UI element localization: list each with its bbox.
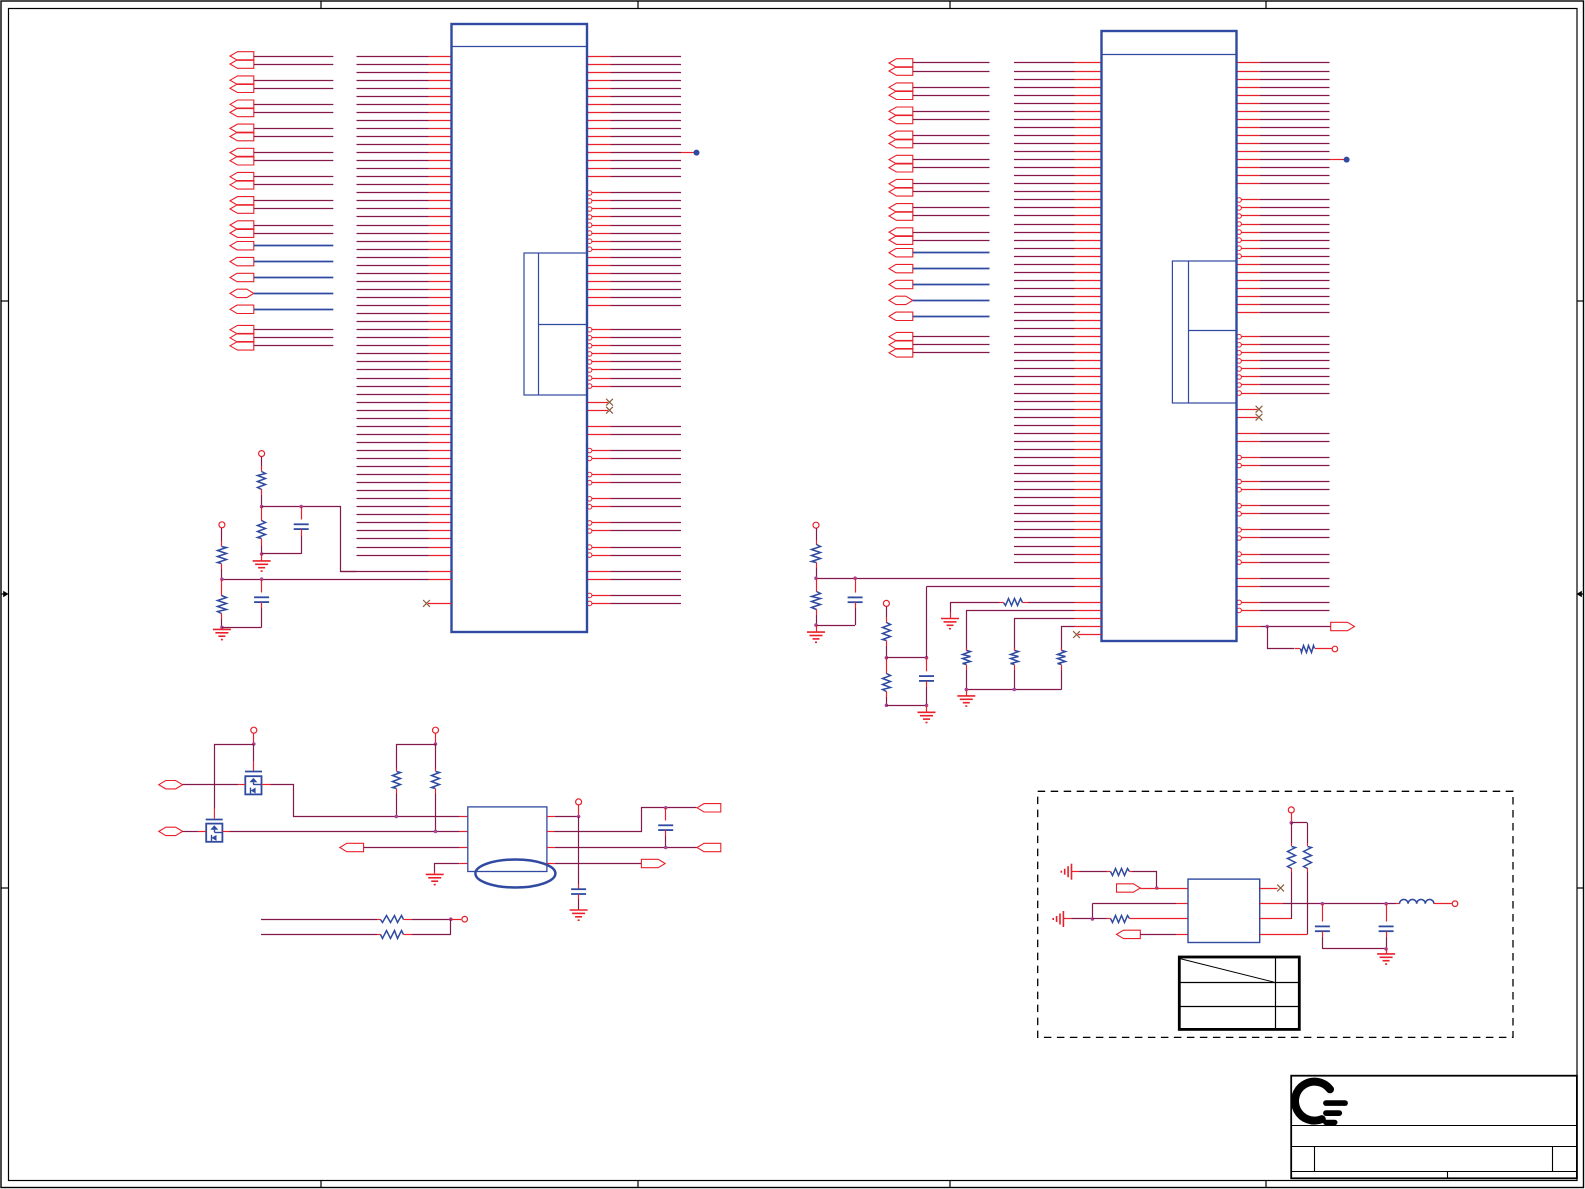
U2 left pin row 65 wire: [927, 586, 1102, 588]
wire flag to U3 pin 4: [1140, 934, 1188, 936]
node C junction: [220, 577, 224, 581]
ground below node D: [213, 629, 231, 639]
U2 right pin rows 0-15: [1237, 62, 1330, 64]
node D junction: [220, 626, 224, 630]
wire G1 to resistor R19: [1072, 871, 1111, 873]
transformer right pin 2 wire to flag RDP: [547, 808, 697, 832]
node R junction: [664, 846, 668, 850]
U1 IC inner sub-block: [524, 253, 587, 395]
node L junction: [252, 742, 256, 746]
pulldown resistor R11: [963, 648, 971, 689]
node U junction: [1091, 917, 1095, 921]
sideways ground G2: [1053, 911, 1063, 927]
transistor Q1: [245, 772, 262, 795]
power terminal V2: [219, 522, 225, 528]
node H junction: [814, 623, 818, 627]
ground below C5: [570, 910, 588, 920]
U2 left no-connect pin row 71: [1073, 631, 1101, 638]
wire Q1 drain to transformer pin 1: [262, 785, 468, 817]
ground below transformer pin 4: [426, 874, 444, 884]
flag DONE right: [1331, 622, 1355, 630]
power terminal V5: [251, 727, 257, 733]
note table row lines: [1179, 983, 1299, 1007]
node C2 junction: [260, 577, 264, 581]
U3 right pin 3 wire to R21: [1260, 918, 1292, 920]
U3 right pin 4 wire to R22: [1260, 934, 1308, 936]
resistor R5: [812, 545, 821, 563]
wire node T to U3 pin 1: [1157, 888, 1188, 890]
node M junction: [434, 742, 438, 746]
wire W2 up to node S: [450, 919, 452, 934]
border zone tick marks bottom: [321, 1181, 1266, 1189]
U2 right pin rows 17-24 (inverted): [1237, 198, 1330, 203]
U2 single flag blue net 4: [889, 296, 990, 304]
transformer right pin 4 wire to flag: [547, 863, 642, 865]
node J2 junction: [925, 704, 929, 708]
U2 IC inner sub-block: [1172, 261, 1236, 403]
resistor R3: [218, 547, 227, 564]
power terminal V3: [813, 522, 819, 528]
title block vertical dividers: [1315, 1147, 1553, 1179]
node B junction: [260, 552, 264, 556]
U3 pin 2 wire: [1092, 904, 1188, 919]
U2 right pin rows 34-41 (inverted): [1237, 334, 1330, 339]
ground below node B: [253, 554, 271, 571]
U2 right no-connect pins rows 43-44: [1237, 406, 1263, 413]
wire V2 to R3: [221, 528, 223, 547]
resistor R15: [393, 769, 401, 817]
flag RDN: [697, 843, 721, 851]
node W junction: [1384, 902, 1388, 906]
note table column line: [1275, 957, 1277, 1029]
power terminal V8: [1288, 807, 1294, 813]
U1 IC header line: [452, 46, 588, 48]
node I2 junction: [925, 656, 929, 660]
U1 flag pair rows 3-4: [230, 76, 333, 93]
wire R20 to U3 pin 3: [1130, 918, 1189, 920]
node F junction: [1013, 688, 1017, 692]
transformer T1 core ellipse: [475, 860, 555, 888]
U2 flag row 34: [889, 332, 990, 341]
U1 left no-connect pin row 68: [423, 600, 451, 607]
U1 flag pair rows 6-7: [230, 100, 333, 117]
power terminal V7: [576, 799, 582, 805]
resistor R1: [258, 472, 266, 490]
U1 right pin rows 0-15: [587, 56, 681, 58]
wire R1 to node A: [261, 489, 263, 507]
wire node I2 up to U2 pin row 65: [926, 587, 928, 658]
node T junction: [1155, 886, 1159, 890]
transformer right pin 3 wire to flag RDN: [547, 847, 697, 849]
U1 flag pair rows 9-10: [230, 124, 333, 141]
resistor R17: [377, 916, 451, 923]
U2 single flag blue net 3: [889, 280, 990, 288]
U1 IC body box: [452, 24, 588, 632]
U2 single flag blue net 2: [889, 264, 990, 272]
border center arrow right: [1577, 591, 1585, 597]
resistor R2: [258, 507, 266, 554]
node I junction: [885, 656, 889, 660]
node O junction: [434, 830, 438, 834]
wire node P down to C5: [578, 817, 580, 890]
U2 left pin row 69 wire to pulldown: [1015, 619, 1102, 651]
U3 right pin 2 output wire: [1260, 903, 1400, 905]
wire V5 to node L: [253, 733, 255, 744]
U1 flag pair rows 18-19: [230, 197, 333, 214]
capacitor C1: [294, 507, 309, 554]
wire C5 to ground: [578, 894, 580, 910]
wire R7 to node I: [886, 641, 888, 658]
wire node L down to Q1 gate: [253, 744, 255, 771]
U1 single flag blue net 2: [230, 257, 333, 265]
U1 flag pair rows 15-16: [230, 172, 333, 189]
wire V8 to node X: [1291, 813, 1293, 823]
ground for U2 row 67 net: [941, 602, 959, 628]
wire flag to U3 pin 1: [1140, 888, 1156, 890]
wire flag to Q2: [183, 831, 207, 833]
flag TD output: [641, 859, 665, 867]
U1 single flag blue net 3: [230, 273, 333, 281]
title block outer box: [1291, 1076, 1577, 1179]
flag RDP: [697, 804, 721, 812]
power terminal V1: [259, 451, 265, 457]
U2 right pin row 70 wire to flag: [1237, 626, 1331, 628]
node E junction: [965, 688, 969, 692]
U1 flag row 36: [230, 342, 333, 351]
U1 flag pair rows 21-22: [230, 221, 333, 238]
output terminal circle: [1452, 901, 1458, 907]
flag U3 input 1: [1117, 884, 1141, 892]
border center arrow left: [1, 591, 9, 597]
U2 flag pair rows 15-16: [889, 179, 990, 196]
U2 flag pair rows 9-10: [889, 131, 990, 148]
inductor L1: [1400, 899, 1434, 903]
wire node I to C4 top: [886, 657, 926, 659]
wire flag RX to transformer pin 3: [364, 847, 468, 849]
node K junction: [1265, 625, 1269, 629]
node Q junction: [664, 806, 668, 810]
U2 IC body box: [1102, 31, 1237, 641]
node A2 junction: [299, 505, 303, 509]
U1 left pin row 65 wire from RC network: [222, 579, 452, 581]
wire node U to resistor R20: [1092, 918, 1110, 920]
ground below C8: [1377, 949, 1395, 964]
U2 left pin row 67 wire with series resistor R10: [950, 599, 1102, 606]
resistor R20: [1111, 916, 1130, 923]
node Y junction: [1384, 947, 1388, 951]
resistor R19: [1111, 869, 1130, 876]
node G junction: [814, 576, 818, 580]
pulldown resistor R13: [1058, 648, 1066, 689]
wire V1 to R1: [261, 457, 263, 472]
note table diagonal: [1180, 959, 1274, 983]
wire C7 to C8 bottom: [1322, 948, 1386, 950]
U2 flag pair rows 3-4: [889, 83, 990, 100]
capacitor C5: [571, 889, 586, 894]
pulldown resistor R12: [1011, 648, 1019, 689]
wire node L to Q2 gate branch: [215, 745, 254, 809]
wire W2 lower: [261, 934, 377, 936]
flag TXP input: [159, 781, 183, 789]
resistor R7: [883, 623, 891, 641]
node P junction: [577, 815, 581, 819]
wire G2 to node U: [1063, 918, 1092, 920]
capacitor C6: [658, 808, 673, 848]
U2 flag pair rows 0-1: [889, 59, 990, 76]
wire node D to C2 bottom: [222, 627, 262, 629]
U3 regulator box: [1188, 879, 1260, 942]
U2 flag row 35: [889, 340, 990, 349]
U2 IC header line: [1102, 54, 1237, 56]
border zone tick marks right: [1577, 301, 1585, 888]
wire R3 to node C: [221, 564, 223, 579]
pulldown common wire: [966, 689, 1061, 691]
border zone tick marks top: [321, 1, 1266, 9]
capacitor C3: [848, 578, 863, 625]
node A junction: [260, 505, 264, 509]
dashed option box: [1038, 791, 1513, 1037]
wire transformer pin 4 to ground: [435, 864, 468, 875]
U2 right pin pairs rows 46-68: [1237, 433, 1330, 435]
resistor R6: [812, 578, 821, 625]
capacitor C2: [254, 579, 269, 627]
node N junction: [395, 815, 399, 819]
wire node M to R15 top: [397, 745, 436, 769]
U2 flag pair rows 12-13: [889, 155, 990, 172]
node S junction: [449, 917, 453, 921]
wire V6 to node M: [435, 733, 437, 744]
power terminal V4: [883, 600, 889, 606]
U1 right pin rows 34-41 (inverted): [587, 327, 681, 332]
U2 right pin rows 25-31: [1237, 264, 1330, 266]
wire V7 to node P: [578, 805, 580, 817]
U2 flag pair rows 6-7: [889, 107, 990, 124]
node G2 junction: [853, 576, 857, 580]
U2 flag pair rows 21-22: [889, 228, 990, 245]
U1 flag pair rows 0-1: [230, 52, 333, 69]
U1 right no-connect pins rows 43-44: [587, 399, 613, 406]
wire V3 to R5: [816, 528, 818, 545]
U1 flag row 35: [230, 333, 333, 342]
node V junction: [1321, 902, 1325, 906]
U2 flag pair rows 18-19: [889, 204, 990, 221]
wire node H to C3 bottom: [816, 625, 855, 627]
flag TXN input: [159, 827, 183, 835]
wire node B to C1 bottom: [262, 553, 302, 555]
U2 flag row 36: [889, 349, 990, 358]
resistor R8: [883, 658, 891, 706]
U1 single flag blue net 5: [230, 305, 333, 313]
wire R19 to node T: [1130, 872, 1157, 889]
U1 right pin rows 25-31: [587, 257, 681, 259]
ground below pulldowns: [957, 689, 975, 706]
U1 right pin rows 17-24 (inverted): [587, 191, 681, 196]
U1 flag row 34: [230, 325, 333, 334]
resistor R22: [1291, 823, 1311, 935]
wire L1 to output terminal: [1434, 903, 1452, 905]
title block horizontal dividers: [1291, 1126, 1577, 1172]
U1 single flag blue net 1: [230, 242, 333, 250]
power terminal V6: [433, 727, 439, 733]
U1 left pin bus wires: [357, 57, 452, 556]
transformer T1 body: [468, 807, 547, 872]
sideways ground G1: [1061, 864, 1071, 880]
flag U3 input 4: [1117, 930, 1141, 938]
ground below node H: [807, 625, 825, 642]
transformer right pin 1 to node P: [547, 816, 579, 818]
resistor R18: [377, 931, 451, 939]
resistor R16: [432, 744, 440, 831]
capacitor C4: [919, 658, 934, 706]
capacitor C7: [1315, 904, 1330, 949]
wire node A to U1 pin row 64: [262, 507, 357, 572]
U1 flag pair rows 12-13: [230, 148, 333, 165]
flag RX input: [340, 843, 364, 851]
wire V4 to R7: [886, 606, 888, 623]
U2 left pin row 68 wire to pulldown: [967, 611, 1102, 651]
wire flag to Q1: [183, 784, 246, 786]
transistor Q2: [206, 820, 223, 842]
pullup wire from node K with resistor R14: [1268, 627, 1332, 653]
U2 left pin row 70 wire to pulldown: [1062, 627, 1102, 651]
resistor R4: [218, 579, 227, 627]
wire node J to C4 bottom: [886, 705, 926, 707]
capacitor C8: [1379, 904, 1394, 949]
U3 right pin 1 no-connect: [1260, 885, 1284, 892]
wire W1 upper: [261, 919, 377, 921]
U2 left pin row 64 wire: [816, 578, 1102, 580]
wire Q2 drain to transformer pin 2: [222, 831, 467, 833]
U2 left pin bus wires: [1014, 63, 1102, 563]
resistor R21: [1288, 823, 1296, 919]
U1 single flag blue net 4: [230, 289, 333, 297]
note table box: [1179, 957, 1299, 1029]
node X junction: [1290, 821, 1294, 825]
U2 single flag blue net 5: [889, 312, 990, 320]
U2 single flag blue net 1: [889, 249, 990, 257]
ground below C4: [918, 705, 936, 722]
terminal circle right: [451, 919, 461, 921]
wire R5 to node G: [816, 563, 818, 579]
U1 right pin pairs rows 46-68: [587, 426, 681, 428]
border zone tick marks left: [1, 301, 9, 888]
U1 left pin row 64 wire from RC network: [341, 571, 452, 573]
company logo C mark: [1295, 1082, 1348, 1125]
node J junction: [885, 704, 889, 708]
terminal circle for R14: [1332, 646, 1338, 652]
